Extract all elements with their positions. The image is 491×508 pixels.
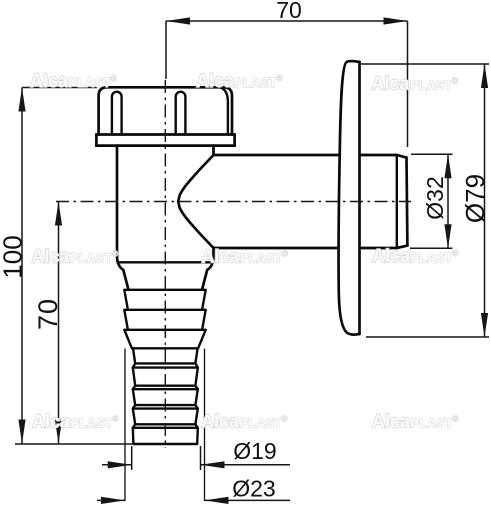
svg-text:PLAST: PLAST (235, 76, 278, 90)
svg-text:PLAST: PLAST (411, 417, 454, 431)
cap fill (99, 87, 232, 134)
svg-text:Ø32: Ø32 (422, 176, 448, 219)
dim Ø19 right extension (200, 446, 202, 470)
svg-text:Alca: Alca (32, 412, 71, 432)
dim Ø32 top arrow (444, 154, 451, 178)
barb rib 1 (124, 290, 205, 310)
watermark row3 tile1 (32, 412, 119, 432)
dim Ø19 right line and arrow (201, 464, 291, 466)
svg-text:Alca: Alca (201, 247, 240, 267)
svg-text:PLAST: PLAST (70, 252, 113, 266)
svg-text:PLAST: PLAST (411, 251, 454, 265)
svg-text:®: ® (112, 250, 118, 259)
svg-text:®: ® (277, 74, 283, 83)
body right edge upper (212, 146, 215, 155)
svg-text:Ø19: Ø19 (233, 438, 276, 464)
svg-text:Alca: Alca (30, 71, 69, 91)
dim Ø32 top extension (411, 153, 453, 155)
pipe bottom edge (214, 247, 340, 250)
wall flange right edge (358, 62, 361, 334)
watermark row2 tile2 (201, 247, 288, 267)
body shoulder line (120, 261, 212, 263)
svg-text:Alca: Alca (32, 247, 71, 267)
watermark row3 tile2 (201, 412, 288, 432)
pipe fill (214, 155, 408, 248)
wall flange profile (339, 61, 360, 335)
dim 70 left top arrow (55, 202, 62, 226)
watermark row2 tile3 (372, 246, 459, 266)
bottom shared extension line (15, 443, 133, 445)
svg-text:Alca: Alca (196, 71, 235, 91)
dim 70 left bottom arrow (55, 420, 62, 444)
body right edge lower with shoulder corner (202, 248, 214, 290)
dim Ø32 line (447, 154, 449, 248)
svg-text:PLAST: PLAST (240, 252, 283, 266)
dim 100 bottom arrow (18, 420, 25, 444)
body left edge with shoulder corner (117, 146, 129, 290)
svg-text:Ø23: Ø23 (232, 476, 275, 502)
dim Ø79 top arrow (481, 64, 488, 88)
dim Ø19 left tail and arrow (102, 464, 132, 466)
svg-text:®: ® (282, 250, 288, 259)
body fill (117, 146, 214, 264)
body to pipe junction curve (178, 155, 213, 248)
svg-text:PLAST: PLAST (69, 76, 112, 90)
svg-text:®: ® (453, 249, 459, 258)
svg-text:®: ® (282, 415, 288, 424)
dim 100 top arrow (18, 88, 25, 112)
dim Ø79 bottom extension (366, 336, 489, 338)
svg-text:®: ® (111, 74, 117, 83)
dim Ø23 right line and arrow (205, 499, 291, 501)
svg-text:®: ® (452, 77, 458, 86)
svg-text:Alca: Alca (372, 246, 411, 266)
cap skirt (96, 135, 234, 146)
dim 70 top left arrow (166, 17, 190, 24)
svg-text:PLAST: PLAST (71, 417, 114, 431)
dim 70 top left extension (165, 21, 167, 79)
svg-text:PLAST: PLAST (410, 79, 453, 93)
dim Ø32 bottom extension (410, 247, 453, 249)
horizontal centerline of outlet pipe (56, 201, 411, 203)
svg-text:100: 100 (0, 235, 28, 278)
svg-text:Alca: Alca (372, 74, 411, 94)
svg-text:Alca: Alca (372, 412, 411, 432)
dim Ø23 right extension (204, 349, 206, 502)
watermark row1 tile2 (196, 71, 283, 91)
svg-text:70: 70 (33, 298, 63, 330)
svg-text:70: 70 (276, 0, 302, 23)
vertical centerline of body (164, 80, 166, 448)
dim 70 left line (58, 202, 60, 444)
barb lower rib 3 (133, 389, 198, 408)
wall flange fill (339, 61, 360, 335)
dim Ø79 top extension (361, 63, 489, 65)
svg-text:®: ® (113, 415, 119, 424)
barb lower rib 4 (133, 409, 198, 428)
svg-text:®: ® (453, 415, 459, 424)
dim Ø23 left extension (124, 349, 126, 502)
dim 70 top right extension (407, 21, 409, 147)
watermark row2 tile1 (32, 247, 119, 267)
svg-text:Alca: Alca (201, 412, 240, 432)
dim 70 top line (166, 20, 408, 22)
dim 100 line (21, 88, 23, 444)
watermark row3 tile3 (372, 412, 459, 432)
barb rib 3 (124, 330, 205, 349)
dim Ø79 line (484, 64, 486, 337)
barb lower rib 1 (133, 348, 198, 367)
cap slot 2 (176, 92, 186, 135)
dim Ø19 left extension (131, 446, 133, 470)
svg-text:Ø79: Ø79 (460, 174, 490, 223)
watermark row1 tile1 (30, 71, 117, 91)
dim Ø32 bottom arrow (444, 224, 451, 248)
barb lower rib 2 (133, 368, 198, 390)
cap U1 outline (99, 87, 232, 134)
pipe end face (397, 158, 408, 248)
pipe end ring line (396, 155, 398, 248)
pipe top edge (214, 154, 340, 157)
barb rib 3 bottom edge (132, 347, 198, 349)
cap inner right contour (221, 88, 228, 135)
barb rib 2 (124, 310, 205, 330)
dim 70 top right arrow (384, 17, 408, 24)
cap slot 1 (112, 92, 122, 135)
dim Ø23 left tail and arrow (97, 499, 125, 501)
dim 100 top extension to cap (22, 87, 97, 89)
watermark row1 tile3 (372, 74, 459, 94)
svg-text:PLAST: PLAST (240, 417, 283, 431)
dim Ø79 bottom arrow (481, 313, 488, 337)
barb bottom collar (133, 428, 198, 444)
